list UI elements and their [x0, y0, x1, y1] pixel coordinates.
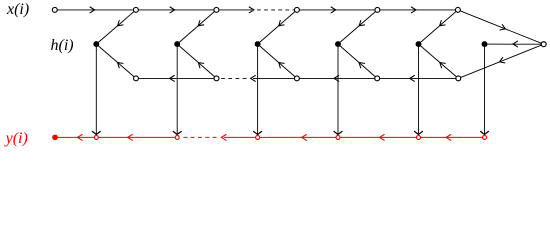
node b(4) backward circle — [294, 76, 299, 81]
wire: forward chain break to x(4) (dashed) — [257, 9, 297, 11]
wire: b(4) to h(3) diagonal — [258, 44, 297, 78]
arrow: forward chain x(1)->x(2) — [90, 7, 95, 13]
arrow: backward chain b(6)->b(5) — [410, 76, 415, 82]
node y(5) output circle red — [417, 135, 421, 139]
node h(4) hidden filled circle — [335, 41, 341, 47]
wire: b(5) to h(4) diagonal — [338, 44, 377, 78]
arrow: h(2)->y(2) — [173, 131, 181, 134]
arrow: forward chain x(4)->x(5) — [331, 7, 336, 13]
arrow: x(3)->h(2) — [198, 21, 204, 26]
wire: forward chain x(1)-x(3) top row — [55, 9, 217, 11]
wire: backward chain b(3)-b(2) — [136, 77, 217, 79]
wire: x(5) to h(4) diagonal — [338, 10, 377, 44]
arrow: end node->b(6) — [499, 58, 505, 63]
arrow: b(3)->h(2) — [198, 63, 203, 68]
wire: b(2) to h(1) diagonal — [96, 44, 136, 78]
wire: x(3) to h(2) diagonal — [177, 10, 216, 44]
node x(5) input circle — [375, 7, 380, 12]
node x(1) input circle — [52, 7, 57, 12]
wire: output chain break to y(2) (dashed red) — [181, 136, 217, 138]
arrow: x(6)->end node — [500, 25, 505, 30]
arrow: x(5)->h(4) — [359, 21, 365, 26]
wire: h(3) to y(3) vertical — [257, 44, 259, 135]
arrow: backward chain at break — [251, 76, 256, 82]
node b(3) backward circle — [214, 76, 219, 81]
wire: x(6) to end node diagonal — [458, 10, 544, 44]
wire: b(3) to h(2) diagonal — [177, 44, 216, 78]
node h(6) hidden filled circle — [482, 41, 488, 47]
arrow: b(4)->h(3) — [279, 63, 284, 68]
arrow: h(5)->y(5) — [415, 131, 423, 134]
wire: backward chain b(6)-b(4) — [297, 77, 458, 79]
wire: h(5) to y(5) vertical — [418, 44, 420, 135]
wire: output chain y(2)-start dot — [55, 136, 177, 138]
arrow: x(4)->h(3) — [279, 21, 284, 26]
arrow: output chain at break — [221, 135, 226, 141]
svg-text:x(i): x(i) — [6, 1, 29, 18]
wire: end node to b(6) diagonal — [458, 44, 543, 78]
svg-text:h(i): h(i) — [51, 37, 74, 54]
node h(3) hidden filled circle — [255, 41, 261, 47]
arrow: h(1)->y(1) — [92, 131, 100, 134]
arrow: forward chain at break — [249, 7, 254, 13]
wire: backward chain b(4) to break (solid half) — [253, 77, 297, 79]
node output start dot red — [52, 135, 58, 141]
node h(1) hidden filled circle — [93, 41, 99, 47]
arrow: backward chain b(3)->b(2) — [170, 76, 175, 82]
wire: h(2) to y(2) vertical — [176, 44, 178, 135]
label h(i) — [51, 37, 74, 54]
arrow: b(6)->h(5) — [440, 63, 446, 68]
node b(5) backward circle — [375, 76, 380, 81]
node y(3) output circle red — [256, 135, 260, 139]
arrow: output chain y(6)->y(5) — [446, 135, 451, 141]
arrow: forward chain x(5)->x(6) — [411, 7, 416, 13]
label x(i) — [6, 1, 29, 18]
node b(6) backward circle — [456, 76, 461, 81]
wire: x(2) to h(1) diagonal — [96, 10, 136, 44]
wire: output chain y(6)-y(3) red — [258, 136, 485, 138]
node y(4) output circle red — [336, 135, 340, 139]
wire: x(6) to h(5) diagonal — [419, 10, 458, 44]
node x(3) input circle — [214, 7, 219, 12]
arrow: b(2)->h(1) — [118, 63, 123, 68]
wire: b(6) to h(5) diagonal — [419, 44, 459, 78]
svg-text:y(i): y(i) — [4, 130, 28, 147]
arrow: forward chain x(2)->x(3) — [170, 7, 175, 13]
label y(i) — [4, 130, 28, 147]
node y(6) output circle red — [483, 135, 487, 139]
arrow: backward chain b(5)->b(4) — [334, 76, 339, 82]
node end-of-sequence circle — [541, 42, 546, 47]
node h(5) hidden filled circle — [416, 41, 422, 47]
node b(2) backward circle — [134, 76, 139, 81]
wire: backward chain break to b(3) (dashed) — [221, 77, 247, 79]
node h(2) hidden filled circle — [174, 41, 180, 47]
arrow: output chain y(4)->y(3) — [302, 135, 307, 141]
wire: h(6) to y(6) vertical — [484, 44, 486, 135]
arrow: b(5)->h(4) — [359, 63, 365, 68]
arrow: x(2)->h(1) — [118, 21, 124, 26]
arrow: end node->h(6) — [513, 41, 518, 47]
wire: x(4) to h(3) diagonal — [258, 10, 297, 44]
arrow: h(3)->y(3) — [254, 131, 262, 134]
node x(2) input circle — [133, 7, 138, 12]
arrow: h(6)->y(6) — [481, 131, 489, 134]
arrow: x(6)->h(5) — [440, 21, 446, 26]
node y(1) output circle red — [94, 135, 98, 139]
wire: end node to h(6) horizontal — [485, 43, 544, 45]
arrow: output chain y(5)->y(4) — [380, 135, 385, 141]
wire: forward chain x(4)-x(6) — [297, 9, 458, 11]
arrow: output chain y(1)->start — [77, 135, 82, 141]
wire: output chain y(3) to break (solid half) — [224, 136, 258, 138]
node y(2) output circle red — [175, 135, 179, 139]
node x(4) input circle — [294, 7, 299, 12]
wire: forward chain x(3) to break (solid half) — [216, 9, 252, 11]
wire: h(4) to y(4) vertical — [337, 44, 339, 135]
arrow: h(4)->y(4) — [334, 131, 342, 134]
wire: h(1) to y(1) vertical — [95, 44, 97, 135]
arrow: output chain y(2)->y(1) — [128, 135, 133, 141]
node x(6) input circle — [455, 7, 460, 12]
